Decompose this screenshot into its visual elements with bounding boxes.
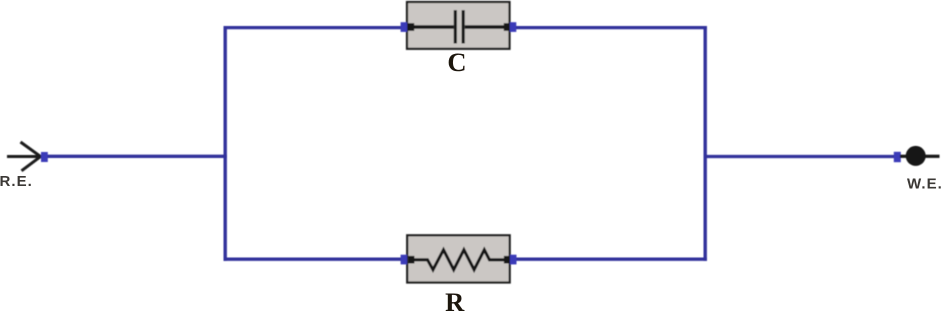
capacitor C symbol xyxy=(412,10,506,43)
resistor R symbol xyxy=(412,250,506,270)
wire left vertical xyxy=(223,26,226,261)
terminal W.E. dot xyxy=(906,146,926,166)
node resistor right (blue) xyxy=(510,255,517,265)
node capacitor right (blue) xyxy=(510,22,517,32)
node resistor left (blue) xyxy=(401,255,408,265)
wire top right segment xyxy=(514,26,707,29)
wire right vertical xyxy=(704,26,707,261)
resistor pin square right (black) xyxy=(504,256,510,264)
resistor pin square left (black) xyxy=(408,256,414,264)
wire top left segment xyxy=(224,26,404,29)
node at R.E. tip xyxy=(41,152,48,162)
svg-text:R.E.: R.E. xyxy=(0,173,33,190)
node at W.E. (blue) xyxy=(894,152,901,162)
svg-text:W.E.: W.E. xyxy=(907,175,943,192)
svg-text:C: C xyxy=(447,47,466,77)
terminal W.E. electrode xyxy=(900,155,940,158)
resistor R box xyxy=(407,235,510,282)
node capacitor left (blue) xyxy=(401,22,408,32)
wire right middle xyxy=(704,155,896,158)
wire left middle xyxy=(47,155,227,158)
wire bottom left segment xyxy=(224,258,404,261)
wire bottom right segment xyxy=(514,258,707,261)
terminal R.E. arrow xyxy=(7,142,41,171)
svg-text:R: R xyxy=(445,287,465,311)
capacitor pin square left (black) xyxy=(408,23,414,31)
capacitor C box xyxy=(407,2,510,49)
capacitor pin square right (black) xyxy=(504,23,510,31)
